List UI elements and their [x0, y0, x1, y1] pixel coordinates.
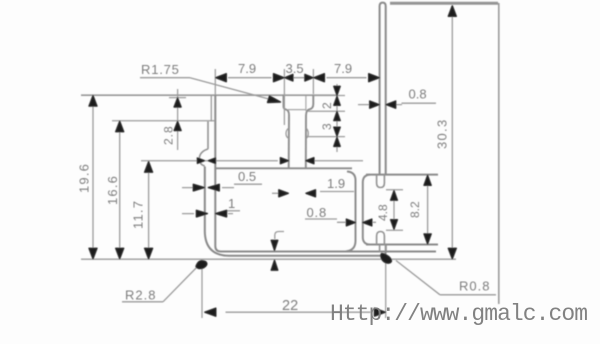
tongue head left side [284, 95, 290, 169]
screw slot lower lip U [377, 232, 385, 245]
arrow 22 left [205, 308, 216, 316]
R0.8 underline [440, 294, 496, 296]
svg-text:0.8: 0.8 [307, 205, 327, 220]
arrow 7.9R right [369, 74, 380, 82]
arrow 0.8wall left [370, 101, 380, 108]
dim 4.8 ticks [386, 190, 403, 231]
dim 16.6 line [119, 121, 121, 259]
top chain ext tick at x284 [283, 69, 285, 125]
arrow bottom-wall bottom [271, 260, 278, 270]
tongue head right side [306, 95, 314, 169]
arrow y161 stem right [306, 158, 314, 164]
arrow 16.6 top [116, 121, 124, 132]
arrow 2.8 top [174, 98, 181, 107]
tongue head bottom face [288, 109, 306, 111]
arrow 16.6 bottom [116, 248, 124, 258]
dim 0.8 cavity arrow line [337, 221, 376, 223]
arrow 7.9L left [216, 74, 227, 82]
dim 0.5 underline [234, 183, 262, 185]
dim 1 arrow line [182, 213, 233, 215]
right border line [498, 3, 500, 304]
arrow 0.8cav right [363, 219, 372, 226]
svg-text:1: 1 [228, 196, 235, 211]
arrow stack3 b [334, 127, 340, 136]
svg-text:2.8: 2.8 [162, 125, 176, 145]
bottom wall dim hook leader [275, 232, 284, 240]
arrow stack2 a [334, 86, 340, 95]
svg-text:0.8: 0.8 [409, 87, 427, 102]
small dim line x337 [336, 84, 338, 152]
dim 1 underline [226, 210, 240, 212]
R2.8 underline [122, 301, 163, 303]
svg-text:7.9: 7.9 [334, 61, 352, 76]
profile outer bottom line [229, 255, 383, 257]
svg-text:R2.8: R2.8 [125, 288, 156, 303]
arrow 1.9 left [279, 190, 289, 197]
right wall fin with rounded closed top [380, 3, 386, 175]
arrow 0.8cav left [346, 219, 355, 226]
profile left wall outer lower [204, 167, 206, 232]
svg-text:3.5: 3.5 [286, 61, 304, 76]
dim 1.9 arrow line tails [272, 192, 279, 194]
arrow 4.8 bottom [391, 220, 398, 230]
arrow 30.3 top [448, 6, 456, 16]
dim 30.3 line [451, 6, 453, 260]
tongue bulge right [306, 128, 308, 139]
R1.75 leader arrowhead [268, 96, 281, 103]
arrow 0.5 right [208, 184, 219, 191]
R1.75 leader [190, 78, 278, 102]
dim 0.8 wall underline [402, 102, 437, 104]
screw slot upper lip U [377, 175, 385, 188]
top chain ext tick at x313 [312, 69, 314, 94]
dim 8.2 line [427, 176, 429, 243]
tongue head inner faint line [305, 96, 307, 111]
arrow 22 right [374, 308, 385, 316]
screw boss left wall [363, 175, 370, 245]
svg-text:R1.75: R1.75 [141, 62, 180, 77]
dim 0.8 cavity underline [305, 218, 337, 220]
arrow 3.5 left [285, 74, 293, 81]
arrow 8.2 bottom [424, 234, 431, 244]
arrow 7.9L right [274, 74, 285, 82]
arrow y161 wall left [197, 158, 204, 163]
arrow 0.5 left [193, 184, 204, 191]
svg-text:11.7: 11.7 [131, 200, 146, 229]
svg-text:7.9: 7.9 [238, 61, 256, 76]
svg-text:Http://www.gmalc.com: Http://www.gmalc.com [330, 301, 587, 327]
svg-text:22: 22 [282, 298, 298, 314]
dim 4.8 line [393, 191, 395, 230]
arrow 11.7 bottom [145, 248, 153, 258]
arrow bottom-wall top [271, 240, 278, 250]
arrow 1 right [216, 210, 227, 217]
R0.8 leader [396, 261, 440, 295]
arrow stack3 a [334, 112, 340, 121]
svg-text:1.9: 1.9 [327, 176, 345, 191]
R2.8 leader blob [196, 261, 207, 269]
profile top face line + extension [81, 94, 337, 96]
arrow 11.7 top [145, 162, 153, 173]
right wall lower stubs [380, 245, 386, 253]
R1.75 underline [140, 77, 190, 79]
arrow 19.6 top [89, 96, 97, 107]
arrow stack2 b [334, 96, 340, 105]
svg-text:R0.8: R0.8 [459, 279, 490, 294]
svg-text:8.2: 8.2 [408, 201, 422, 218]
dim 22 ext line left [201, 263, 203, 318]
top chain ext tick at x215 [214, 69, 216, 95]
arrow 4.8 top [391, 191, 398, 201]
bottom reference line [81, 258, 456, 260]
svg-text:0.5: 0.5 [238, 169, 256, 184]
R2.8 leader [163, 264, 200, 302]
arrow y161 stem left [280, 158, 288, 164]
profile left wall outer mid step [207, 122, 209, 150]
dim 0.8 wall arrows line [358, 104, 402, 106]
dim 11.7 line [148, 161, 150, 259]
arrow 7.9R left [314, 74, 325, 82]
arrow 30.3 bottom [448, 248, 456, 258]
arrow stack3 c [334, 137, 340, 146]
R0.8 corner arc blob [381, 254, 392, 264]
cavity right wall [346, 172, 356, 252]
top chain dimension line [228, 77, 367, 79]
screw boss bottom line [366, 244, 438, 246]
svg-text:30.3: 30.3 [435, 118, 450, 149]
svg-text:2: 2 [320, 102, 334, 109]
dim 2.8 line [177, 89, 179, 150]
dim 2.8 tick top [169, 97, 186, 99]
arrow y161 wall right [208, 158, 215, 163]
arrow 1 left [196, 210, 207, 217]
profile left wall outer upper [210, 96, 212, 122]
arrow 19.6 bottom [89, 248, 97, 258]
top cap flange [390, 2, 498, 5]
dim 16.6 extension line [112, 120, 215, 122]
profile left wall inner face [215, 95, 436, 252]
svg-text:4.8: 4.8 [376, 204, 390, 221]
dim 0.5 arrow line [182, 187, 234, 189]
arrow 8.2 top [424, 175, 431, 185]
svg-text:3: 3 [320, 123, 334, 130]
dim 1.9 underline [320, 191, 354, 193]
corner radius R2.8 bottom-left [205, 231, 229, 256]
corner radius R0.8 bottom-right [383, 245, 386, 256]
dim 19.6 line [92, 95, 94, 259]
svg-text:19.6: 19.6 [77, 163, 92, 193]
svg-text:16.6: 16.6 [105, 175, 120, 205]
arrow 3.5 right [305, 74, 313, 81]
left wall ledge hook [199, 149, 208, 166]
dim 22 line [226, 311, 371, 313]
interior shelf top line [215, 167, 352, 169]
screw boss top line [366, 174, 438, 176]
tongue bulge left [286, 128, 289, 139]
arrow 2.8 bottom [174, 122, 181, 131]
dim line stem to wall y161 [141, 160, 363, 162]
dim 22 ext line right [385, 258, 387, 318]
small dim ticks right of tongue [307, 96, 345, 137]
arrow 0.8wall right [386, 101, 396, 108]
arrow 1.9 right [306, 190, 316, 197]
